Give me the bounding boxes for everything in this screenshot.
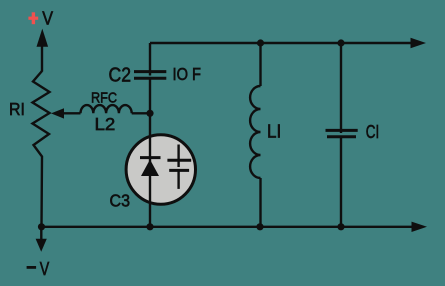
svg-text:CI: CI xyxy=(366,121,380,142)
svg-text:RFC: RFC xyxy=(91,89,117,106)
svg-text:LI: LI xyxy=(267,122,281,142)
svg-text:V: V xyxy=(40,259,50,279)
svg-text:V: V xyxy=(42,8,53,29)
svg-text:IO F: IO F xyxy=(173,64,202,84)
svg-text:RI: RI xyxy=(9,99,25,119)
svg-text:C2: C2 xyxy=(109,64,132,86)
svg-text:L2: L2 xyxy=(95,114,116,134)
svg-text:C3: C3 xyxy=(110,191,131,211)
